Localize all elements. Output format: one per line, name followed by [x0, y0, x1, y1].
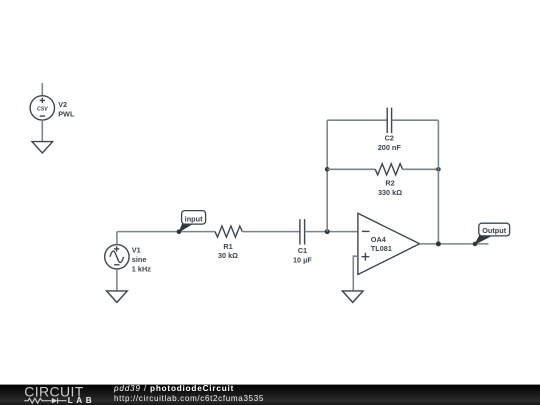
- resistor R2: [375, 164, 402, 175]
- svg-text:R2: R2: [385, 179, 394, 188]
- svg-text:OA4: OA4: [371, 235, 387, 244]
- ground (V1): [107, 291, 128, 303]
- svg-text:R1: R1: [223, 242, 232, 251]
- wire C2 branch top left: [327, 119, 387, 121]
- wire C1 to op-amp inverting input: [305, 231, 358, 233]
- voltage source V1 sine: [105, 245, 129, 269]
- svg-text:TL081: TL081: [371, 244, 392, 253]
- junction node right R2 branch: [436, 167, 441, 172]
- svg-text:sine: sine: [132, 255, 147, 264]
- ground (V2): [32, 142, 53, 153]
- svg-text:1 kHz: 1 kHz: [132, 265, 151, 274]
- wire V1 up to main line: [116, 232, 118, 245]
- svg-text:200 nF: 200 nF: [378, 143, 402, 152]
- wire V1 to ground: [116, 269, 118, 291]
- svg-text:V1: V1: [132, 246, 141, 255]
- resistor R1: [215, 226, 242, 237]
- wire R2 branch right: [403, 168, 439, 170]
- svg-text:LAB: LAB: [68, 396, 95, 405]
- node Output flag attachment: [473, 242, 478, 247]
- node output junction: [436, 241, 441, 246]
- node input junction: [177, 229, 182, 234]
- svg-text:V2: V2: [58, 100, 67, 109]
- junction node left R2 branch: [325, 167, 330, 172]
- net flag Output: [475, 223, 509, 244]
- net flag input: [179, 211, 205, 232]
- svg-text:CSV: CSV: [37, 107, 48, 113]
- svg-text:10 µF: 10 µF: [293, 255, 312, 264]
- svg-text:input: input: [185, 215, 203, 224]
- svg-text:Output: Output: [482, 226, 506, 235]
- wire R1 to C1: [242, 231, 300, 233]
- wire V2 to ground: [41, 120, 43, 142]
- wire R2 branch left: [327, 168, 375, 170]
- svg-text:pdd39 / photodiodeCircuit: pdd39 / photodiodeCircuit: [113, 384, 234, 393]
- svg-text:C2: C2: [385, 134, 394, 143]
- wire main horizontal V1 to R1: [117, 231, 215, 233]
- svg-text:http://circuitlab.com/c6t2cfum: http://circuitlab.com/c6t2cfuma3535: [114, 394, 264, 403]
- svg-text:30 kΩ: 30 kΩ: [218, 251, 238, 260]
- svg-text:C1: C1: [298, 246, 307, 255]
- wire V2 top stub: [41, 83, 43, 96]
- op-amp OA4: [358, 213, 420, 274]
- wire feedback left vertical: [326, 120, 328, 231]
- CircuitLab logo resistor zigzag and diode: [24, 398, 66, 404]
- ground (op-amp +): [342, 291, 363, 303]
- voltage source V2 (CSV PWL): [30, 96, 54, 120]
- wire op-amp output: [420, 243, 489, 245]
- node A junction (inverting input): [325, 229, 330, 234]
- wire feedback right vertical: [437, 120, 439, 244]
- wire C2 branch top right: [392, 119, 439, 121]
- svg-text:330 kΩ: 330 kΩ: [378, 188, 402, 197]
- capacitor C2: [387, 108, 391, 134]
- capacitor C1: [300, 219, 305, 245]
- svg-text:PWL: PWL: [58, 109, 75, 118]
- wire op-amp non-inverting input to ground: [353, 256, 358, 291]
